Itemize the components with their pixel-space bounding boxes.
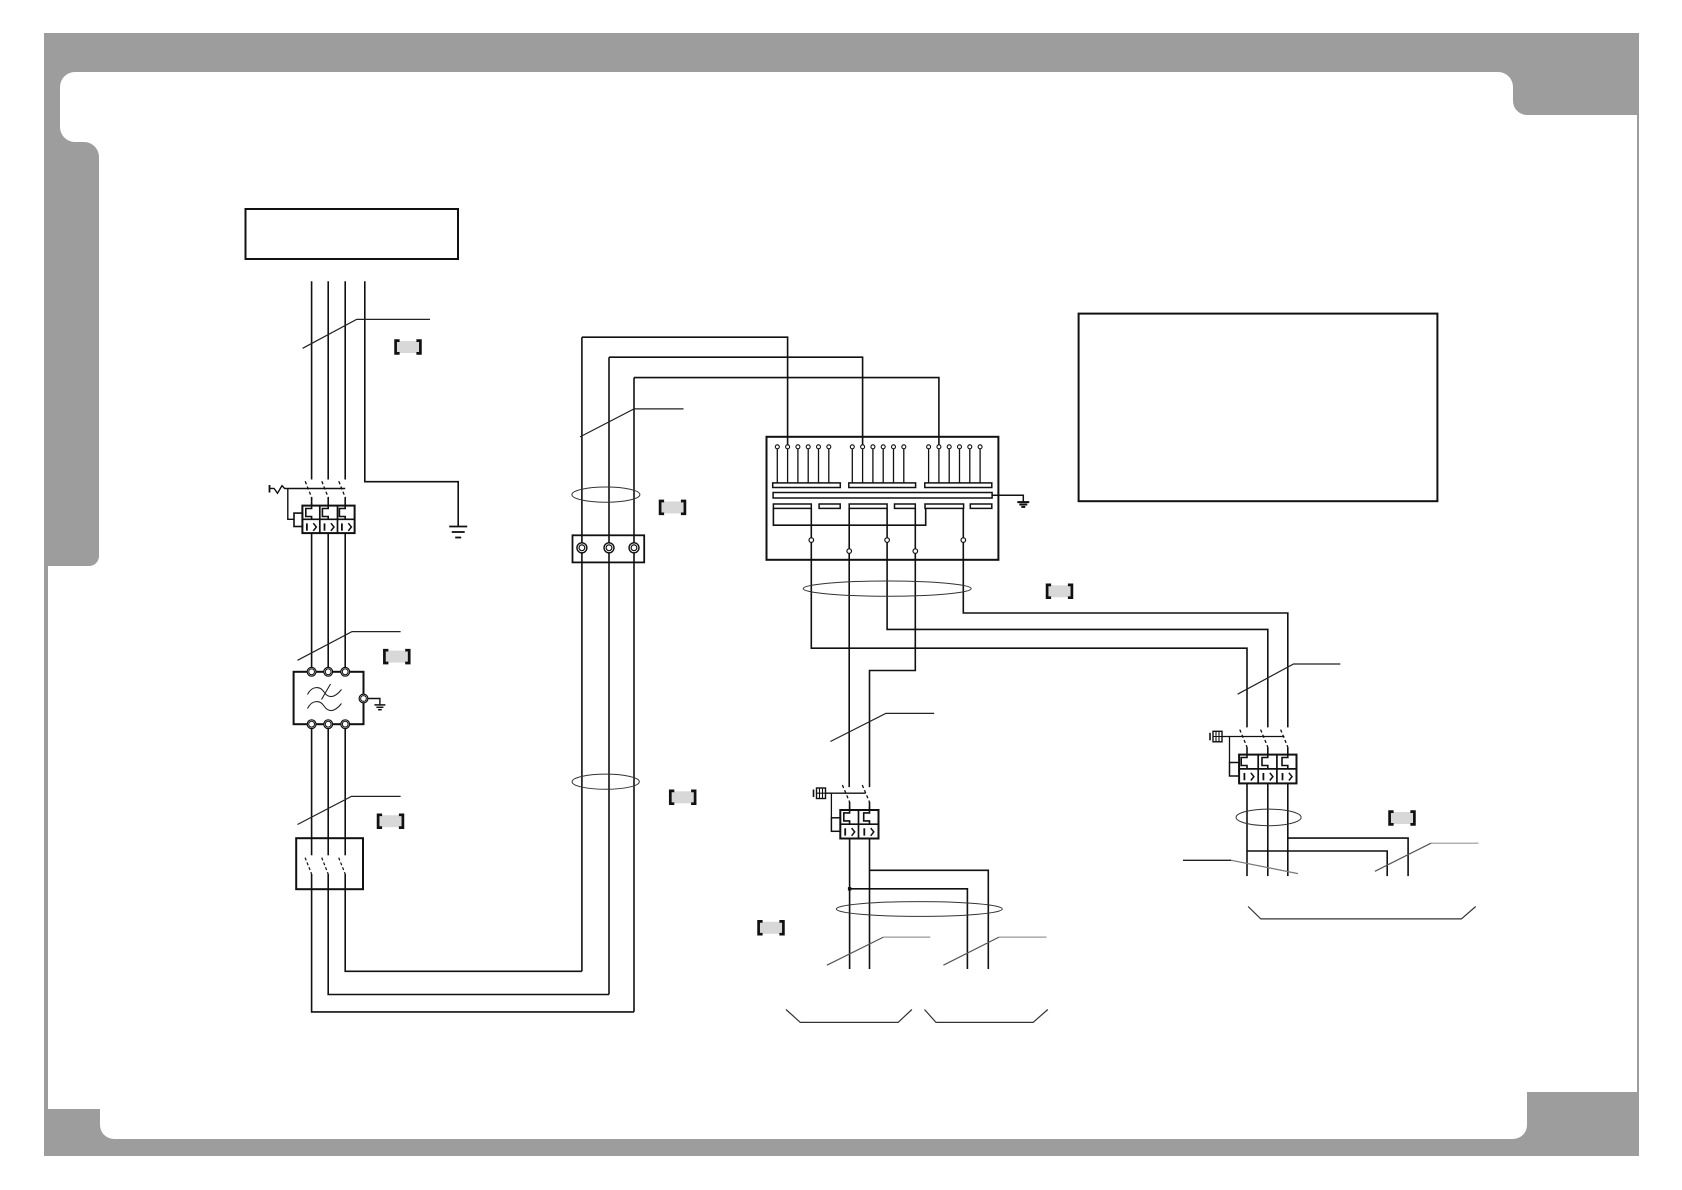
label box L4 (redacted text placeholder) xyxy=(660,501,685,514)
slash pointer (left output pair) xyxy=(827,937,884,965)
note box xyxy=(1079,314,1438,502)
terminal pin group 3 pin 4 xyxy=(958,445,962,449)
terminal pin group 1 pin 5 xyxy=(817,445,821,449)
wire: incoming 3-phase L1 xyxy=(311,281,313,479)
phase link segment 4 xyxy=(895,504,916,508)
breaker ELB pole 1 magnetic element I> xyxy=(306,523,308,530)
right breaker body xyxy=(1239,755,1296,784)
breaker ELB body xyxy=(302,506,354,533)
center breaker pole 1 magnetic element I> xyxy=(844,828,846,835)
terminal pin group 1 pin 1 xyxy=(775,445,779,449)
wire: filter output 3 to magnetic contactor xyxy=(344,729,346,839)
terminal pin group 1 pin 6 xyxy=(827,445,831,449)
wire: contactor L3 down and across to field cable xyxy=(345,889,582,971)
wire: field cable conductor 1 across to outdoor terminal xyxy=(582,337,788,445)
right breaker pole 3 magnetic element I> xyxy=(1282,773,1284,780)
wire: incoming 3-phase L3 xyxy=(344,281,346,479)
wire: center breaker pole 1 output (splits) xyxy=(849,839,851,970)
center breaker pole 1 thermal element xyxy=(844,810,850,824)
label box L5 (redacted text placeholder) xyxy=(670,791,695,804)
phase link segment 1 xyxy=(773,504,811,508)
right breaker linkage xyxy=(1222,736,1284,738)
terminal pin group 2 pin 1 xyxy=(850,445,854,449)
slash pointer (right pair) xyxy=(1375,843,1431,871)
breaker ELB pole 3 magnetic element I> xyxy=(341,523,343,530)
label box L8 (redacted text placeholder) xyxy=(1390,812,1415,825)
label box L1 (redacted text placeholder) xyxy=(396,341,421,354)
right breaker pole 2 magnetic element I> xyxy=(1262,773,1264,780)
center breaker pole 2 magnetic element I> xyxy=(863,828,865,835)
breaker ELB mechanism box xyxy=(294,513,302,526)
terminal output node A xyxy=(809,538,814,543)
label box L3 (redacted text placeholder) xyxy=(378,815,403,828)
terminal pin group 1 pin 4 xyxy=(806,445,810,449)
terminal pin group 3 pin 3 xyxy=(947,445,951,449)
cable bundle ellipse (upper) xyxy=(572,487,640,502)
cable bundle ellipse (right breaker outputs) xyxy=(1236,809,1301,826)
wire: terminal output E xyxy=(963,508,1288,727)
cable bundle ellipse (center outputs) xyxy=(836,902,1002,917)
center breaker pole 2 contact lever xyxy=(862,785,869,810)
wire: filter output 2 to magnetic contactor xyxy=(327,729,329,839)
phase jumper channel xyxy=(773,508,925,525)
right breaker pole 1 contact lever xyxy=(1240,730,1247,748)
wire: right breaker pole 1 output (splits) xyxy=(1246,783,1248,876)
wire: right breaker pole 3 output (splits) xyxy=(1287,783,1289,876)
right breaker pole 1 magnetic element I> xyxy=(1243,773,1245,780)
noise filter input terminal 3 xyxy=(341,667,350,676)
right breaker mechanism box xyxy=(1230,763,1240,777)
wire: terminal output A xyxy=(811,508,1247,727)
underbrace (fan unit) xyxy=(1248,907,1476,919)
cable slash pointer (field cable) xyxy=(580,409,684,437)
center breaker pole 1 contact lever xyxy=(842,785,849,810)
terminal pin group 1 pin 3 xyxy=(796,445,800,449)
wire: incoming 3-phase L2 xyxy=(327,281,329,479)
breaker ELB pole 1 contact lever xyxy=(305,481,311,505)
center breaker pole 2 thermal element xyxy=(864,810,870,824)
phase link segment 6 xyxy=(970,504,992,508)
noise filter wave slash xyxy=(322,684,331,700)
terminal pin group 3 pin 1 xyxy=(927,445,931,449)
noise filter output terminal 1 xyxy=(307,720,316,729)
right breaker pole 2 contact lever xyxy=(1261,730,1268,748)
terminal pin group 2 pin 6 xyxy=(902,445,906,449)
right breaker pole 2 thermal element xyxy=(1262,755,1268,769)
phase link segment 3 xyxy=(849,504,887,508)
center breaker linkage xyxy=(826,792,866,794)
terminal bar group 1 xyxy=(773,483,841,488)
terminal output node D xyxy=(913,549,918,554)
junction dot xyxy=(848,887,851,890)
breaker ELB pole 3 contact lever xyxy=(339,481,345,505)
wire: breaker ELB pole 2 output to noise filter xyxy=(327,533,329,667)
terminal output node C xyxy=(885,538,890,543)
breaker ELB pole 2 magnetic element I> xyxy=(324,523,326,530)
wire: filter output 1 to magnetic contactor xyxy=(311,729,313,839)
center breaker body xyxy=(840,810,878,839)
contactor pole 2 xyxy=(327,838,329,855)
terminal output node E xyxy=(961,538,966,543)
wire: bus to chassis ground xyxy=(992,495,1023,502)
label box L2 (redacted text placeholder) xyxy=(384,650,409,663)
terminal bar group 2 xyxy=(849,483,916,488)
noise filter box xyxy=(294,672,364,724)
wire: field cable conductor 3 across to outdoor terminal xyxy=(634,378,939,445)
label box L7 (redacted text placeholder) xyxy=(1047,585,1072,598)
label box L6 (redacted text placeholder) xyxy=(759,921,784,934)
noise filter wave symbol 2 xyxy=(308,702,342,711)
wire: right breaker pole 2 output xyxy=(1267,783,1269,876)
outdoor unit terminal assembly box xyxy=(767,437,999,560)
noise filter earth terminal xyxy=(368,699,380,705)
wire: breaker ELB pole 3 output to noise filter xyxy=(344,533,346,667)
circuit breaker ELB (3-pole) : handle tick and linkage zigzag xyxy=(269,485,271,493)
terminal output node B xyxy=(847,549,852,554)
wire: center breaker pole 2 output (splits) xyxy=(869,839,871,970)
breaker ELB pole 2 contact lever xyxy=(322,481,328,505)
ground symbol (chassis) xyxy=(1017,501,1029,503)
terminal pin group 2 pin 3 xyxy=(871,445,875,449)
terminal strip screw 3 xyxy=(629,543,639,553)
terminal strip screw 2 xyxy=(604,543,614,553)
center breaker mechanism box xyxy=(831,818,840,832)
terminal pin group 2 pin 4 xyxy=(881,445,885,449)
terminal pin group 1 pin 2 xyxy=(786,445,790,449)
wire: terminal output C xyxy=(887,508,1268,727)
right breaker pole 3 thermal element xyxy=(1282,755,1288,769)
terminal pin group 3 pin 2 xyxy=(937,445,941,449)
cable slash pointer (fan unit feed) xyxy=(1238,664,1341,694)
cable slash pointer (filter input) xyxy=(298,632,401,661)
noise filter output terminal 3 xyxy=(341,720,350,729)
underbrace (compressor 2) xyxy=(925,1010,1048,1023)
noise filter output terminal 2 xyxy=(324,720,333,729)
contactor pole 1 xyxy=(311,838,313,855)
terminal pin group 3 pin 6 xyxy=(978,445,982,449)
wire: earth conductor to ground xyxy=(365,281,458,526)
wire: contactor L1 down and across to field cable xyxy=(312,889,634,1012)
contactor pole 3 xyxy=(344,838,346,855)
source power box xyxy=(246,209,459,259)
wire: field cable conductor 2 xyxy=(608,357,610,994)
wire: terminal output D xyxy=(870,508,916,787)
cable bundle ellipse (compressor leads) xyxy=(803,581,971,596)
breaker ELB pole 2 thermal element xyxy=(322,506,328,520)
connector icon (center breaker) xyxy=(813,790,815,798)
wire: field cable conductor 3 xyxy=(633,378,635,1012)
ground bus bar (full width) xyxy=(773,493,992,499)
noise filter wave symbol 1 xyxy=(308,688,342,697)
breaker ELB pole 3 thermal element xyxy=(339,506,345,520)
breaker ELB pole 1 thermal element xyxy=(306,506,312,520)
terminal strip screw 1 xyxy=(577,543,587,553)
terminal bar group 3 xyxy=(925,483,992,488)
cable slash pointer (contactor input) xyxy=(298,796,401,824)
cable bundle ellipse (lower) xyxy=(572,774,639,789)
slash pointer (left trio) xyxy=(1183,859,1231,861)
wire: terminal output B xyxy=(848,508,850,787)
noise filter input terminal 1 xyxy=(307,667,316,676)
phase link segment 5 xyxy=(925,504,964,508)
terminal pin group 3 pin 5 xyxy=(968,445,972,449)
cable slash pointer (compressor-1 leads) xyxy=(830,713,934,741)
ground symbol (filter earth) xyxy=(374,704,385,706)
cable slash pointer (incoming cable) xyxy=(303,319,430,348)
terminal pin group 2 pin 5 xyxy=(892,445,896,449)
terminal pin group 2 pin 2 xyxy=(861,445,865,449)
connector icon (right breaker) xyxy=(1209,733,1211,741)
slash pointer (right output pair) xyxy=(943,937,999,965)
noise filter input terminal 2 xyxy=(324,667,333,676)
phase link segment 2 xyxy=(819,504,840,508)
breaker ELB trip linkage xyxy=(288,488,294,519)
right breaker pole 1 thermal element xyxy=(1241,755,1247,769)
magnetic contactor box xyxy=(296,838,363,889)
wire: breaker ELB pole 1 output to noise filter xyxy=(311,533,313,667)
terminal strip block xyxy=(573,535,645,562)
wire: field cable conductor 2 across to outdoor terminal xyxy=(609,357,863,445)
wire: contactor L2 down and across to field cable xyxy=(328,889,609,994)
underbrace (compressor 1) xyxy=(786,1010,912,1023)
right breaker pole 3 contact lever xyxy=(1281,730,1288,748)
ground symbol (main earth) xyxy=(449,526,467,528)
wire: field cable conductor 1 xyxy=(581,337,583,971)
